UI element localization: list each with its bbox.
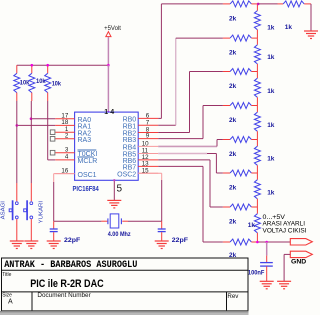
- svg-text:3: 3: [65, 147, 69, 154]
- svg-text:OSC1: OSC1: [78, 172, 97, 179]
- svg-text:RB1: RB1: [123, 124, 137, 131]
- svg-text:MCLR: MCLR: [78, 158, 98, 165]
- svg-text:Rev: Rev: [227, 293, 239, 300]
- svg-text:2k: 2k: [229, 50, 237, 57]
- svg-text:22pF: 22pF: [64, 237, 80, 244]
- svg-text:2k: 2k: [229, 219, 237, 226]
- svg-text:2k: 2k: [229, 185, 237, 192]
- svg-text:RA3: RA3: [78, 137, 92, 144]
- svg-text:10: 10: [142, 140, 149, 147]
- svg-text:1k: 1k: [285, 24, 293, 31]
- svg-text:VOLTAJ CIKISI: VOLTAJ CIKISI: [263, 227, 307, 234]
- svg-text:+5Volt: +5Volt: [104, 26, 121, 32]
- svg-text:1k: 1k: [267, 156, 275, 163]
- svg-text:2k: 2k: [229, 16, 237, 23]
- svg-text:ASAGI: ASAGI: [1, 201, 7, 219]
- svg-text:RB3: RB3: [123, 137, 137, 144]
- svg-text:4: 4: [110, 109, 114, 116]
- svg-text:10k: 10k: [52, 80, 62, 87]
- svg-text:10k: 10k: [36, 78, 46, 85]
- svg-text:2: 2: [65, 133, 69, 140]
- svg-text:1k: 1k: [267, 25, 275, 32]
- svg-text:PIC16F84: PIC16F84: [73, 186, 99, 193]
- svg-text:OSC2: OSC2: [117, 172, 136, 179]
- svg-text:1k: 1k: [267, 54, 275, 61]
- svg-text:A: A: [8, 299, 13, 306]
- svg-text:1k: 1k: [267, 122, 275, 129]
- svg-text:2k: 2k: [229, 117, 237, 124]
- svg-text:ANTRAK - BARBAROS ASUROGLU: ANTRAK - BARBAROS ASUROGLU: [4, 260, 137, 271]
- svg-text:4: 4: [65, 154, 69, 161]
- svg-text:YUKARI: YUKARI: [38, 201, 44, 223]
- svg-text:PIC ile R-2R DAC: PIC ile R-2R DAC: [30, 278, 104, 290]
- svg-text:Title: Title: [2, 272, 11, 278]
- svg-text:5: 5: [117, 184, 123, 195]
- svg-text:Document Number: Document Number: [37, 292, 90, 299]
- svg-text:10k: 10k: [20, 79, 30, 86]
- svg-text:2k: 2k: [229, 83, 237, 90]
- svg-text:7: 7: [146, 119, 150, 126]
- svg-text:22pF: 22pF: [172, 237, 188, 244]
- svg-text:RB4: RB4: [123, 145, 137, 152]
- svg-text:100nF: 100nF: [248, 269, 265, 276]
- svg-text:1k: 1k: [267, 88, 275, 95]
- svg-text:2k: 2k: [229, 151, 237, 158]
- svg-text:Size: Size: [2, 292, 12, 298]
- svg-text:1k: 1k: [267, 189, 275, 196]
- svg-text:1k: 1k: [248, 222, 256, 229]
- svg-text:9: 9: [146, 133, 150, 140]
- svg-text:4.00 Mhz: 4.00 Mhz: [108, 231, 132, 238]
- svg-text:GND: GND: [291, 258, 307, 265]
- svg-text:1: 1: [104, 109, 108, 116]
